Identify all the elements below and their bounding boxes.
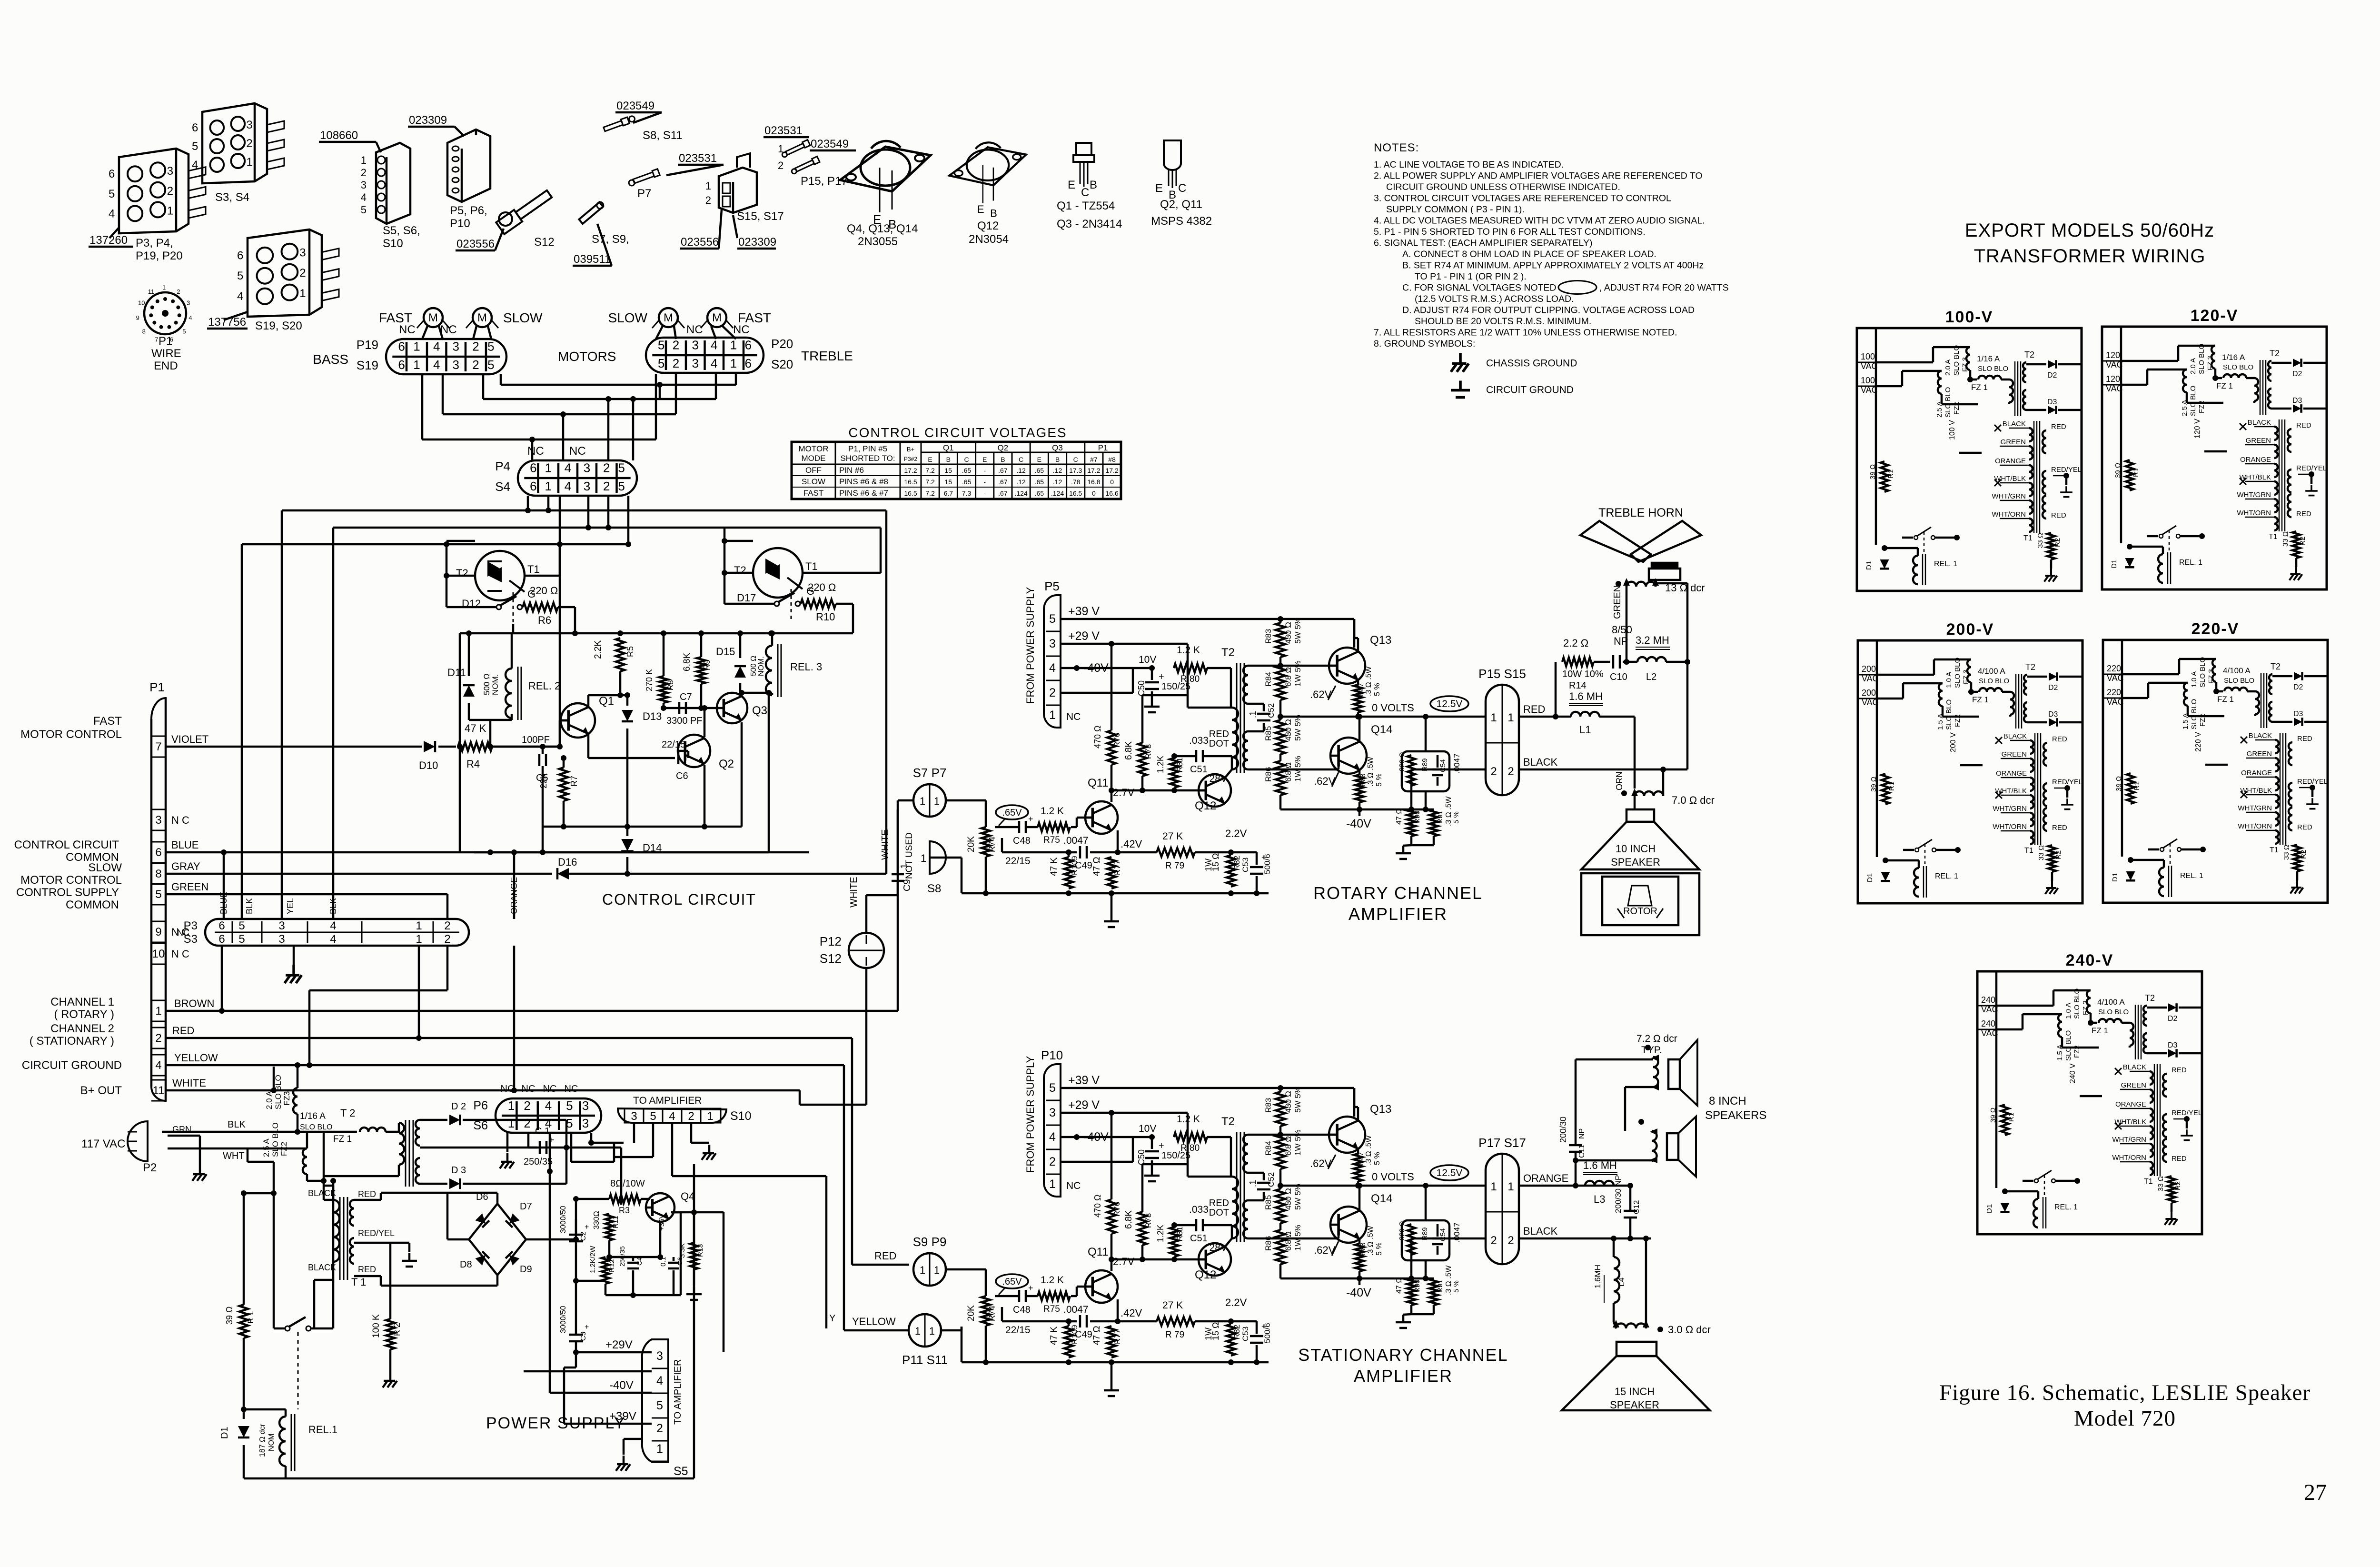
svg-text:R8: R8: [666, 680, 675, 690]
svg-text:1: 1: [656, 1442, 663, 1456]
svg-text:Q1 - TZ554: Q1 - TZ554: [1057, 200, 1115, 212]
svg-text:GREEN: GREEN: [2001, 438, 2026, 446]
svg-text:.12: .12: [1016, 467, 1026, 474]
svg-text:S20: S20: [771, 357, 793, 371]
svg-text:2.0 A: 2.0 A: [1944, 359, 1952, 376]
svg-text:33 Ω: 33 Ω: [2037, 845, 2045, 860]
svg-text:R1: R1: [2007, 1113, 2015, 1122]
svg-text:039511: 039511: [574, 253, 611, 266]
svg-text:NC: NC: [177, 928, 189, 938]
svg-text:+29V: +29V: [605, 1338, 633, 1351]
svg-text:3.2 MH: 3.2 MH: [1636, 634, 1669, 646]
svg-text:39 Ω: 39 Ω: [2114, 463, 2122, 478]
svg-text:6.8 Ω: 6.8 Ω: [1284, 667, 1293, 687]
svg-text:S7, S9,: S7, S9,: [592, 233, 629, 246]
svg-text:ORANGE: ORANGE: [1996, 769, 2027, 778]
svg-text:6.8K: 6.8K: [1124, 1210, 1134, 1229]
svg-text:.67: .67: [998, 489, 1008, 497]
svg-text:RED/YEL: RED/YEL: [2051, 466, 2082, 474]
svg-text:137260: 137260: [89, 234, 128, 247]
svg-text:023531: 023531: [679, 152, 717, 165]
svg-text:Y: Y: [829, 1313, 835, 1324]
svg-text:5 %: 5 %: [1375, 773, 1383, 787]
svg-text:P10: P10: [1041, 1048, 1063, 1062]
svg-text:WHT/ORN: WHT/ORN: [2237, 509, 2271, 517]
svg-text:1W 5%: 1W 5%: [1293, 756, 1302, 782]
svg-text:0 VOLTS: 0 VOLTS: [1372, 702, 1414, 714]
svg-text:500 Ω: 500 Ω: [750, 656, 758, 676]
svg-text:1/16 A: 1/16 A: [2222, 353, 2245, 362]
svg-text:2: 2: [1049, 1155, 1056, 1168]
svg-text:TRANSFORMER WIRING: TRANSFORMER WIRING: [1974, 246, 2206, 267]
svg-text:6.8K: 6.8K: [682, 653, 692, 671]
svg-text:3: 3: [1049, 637, 1056, 650]
svg-text:220 Ω: 220 Ω: [530, 585, 558, 597]
svg-text:6: 6: [218, 933, 225, 946]
svg-text:R1: R1: [1887, 469, 1895, 479]
svg-text:RED: RED: [2172, 1066, 2187, 1074]
svg-text:REL. 1: REL. 1: [2054, 1203, 2078, 1211]
svg-text:PINS #6 & #7: PINS #6 & #7: [839, 489, 888, 498]
svg-text:11: 11: [148, 288, 155, 295]
svg-text:2: 2: [472, 358, 479, 372]
svg-text:D2: D2: [2047, 371, 2057, 379]
svg-text:6: 6: [398, 339, 405, 353]
svg-text:S12: S12: [820, 951, 842, 966]
svg-text:5: 5: [238, 919, 245, 932]
svg-text:NC: NC: [686, 323, 703, 336]
svg-text:15: 15: [945, 478, 952, 486]
svg-text:C: C: [1178, 182, 1186, 195]
svg-text:E: E: [928, 456, 932, 463]
svg-text:023531: 023531: [764, 124, 803, 137]
svg-text:RED: RED: [358, 1265, 376, 1274]
svg-text:WHT/GRN: WHT/GRN: [2238, 804, 2272, 812]
svg-text:NC: NC: [733, 323, 750, 336]
svg-text:P11 S11: P11 S11: [902, 1353, 948, 1367]
svg-text:220: 220: [2107, 664, 2121, 673]
svg-text:C7: C7: [680, 692, 692, 702]
svg-text:SPEAKER: SPEAKER: [1611, 856, 1660, 868]
svg-text:137756: 137756: [208, 316, 246, 329]
svg-text:1: 1: [413, 339, 420, 353]
svg-text:3: 3: [278, 919, 285, 932]
svg-text:( ROTARY ): ( ROTARY ): [54, 1008, 114, 1021]
svg-text:D1: D1: [1865, 561, 1873, 570]
svg-text:M: M: [477, 311, 487, 324]
svg-text:R2: R2: [2174, 1181, 2182, 1190]
svg-text:SPEAKER: SPEAKER: [1610, 1399, 1659, 1411]
svg-text:47 Ω: 47 Ω: [1092, 857, 1102, 876]
svg-text:4/100 A: 4/100 A: [1978, 667, 2005, 676]
svg-text:1: 1: [730, 338, 737, 352]
svg-text:7.0 Ω dcr: 7.0 Ω dcr: [1672, 794, 1715, 806]
svg-text:2.0 A: 2.0 A: [2189, 358, 2197, 374]
svg-text:2: 2: [705, 194, 711, 206]
svg-text:.65: .65: [1035, 489, 1044, 497]
svg-text:D6: D6: [476, 1192, 488, 1202]
svg-text:D2: D2: [2168, 1015, 2178, 1023]
svg-text:SLO BLO: SLO BLO: [2064, 1030, 2073, 1061]
svg-text:1: 1: [1507, 711, 1514, 724]
svg-text:17.2: 17.2: [1087, 467, 1100, 474]
svg-text:BLACK: BLACK: [2123, 1063, 2146, 1071]
svg-text:1.0 A: 1.0 A: [2190, 671, 2198, 688]
svg-text:187 Ω dcr: 187 Ω dcr: [258, 1424, 267, 1457]
svg-text:WHT/ORN: WHT/ORN: [1993, 823, 2027, 831]
svg-text:SLO BLO: SLO BLO: [1944, 387, 1952, 418]
svg-text:WHT/GRN: WHT/GRN: [1993, 805, 2027, 813]
svg-text:REL.1: REL.1: [308, 1424, 337, 1436]
svg-text:RED: RED: [2051, 423, 2066, 431]
svg-text:5W 5%: 5W 5%: [1293, 1184, 1302, 1210]
svg-text:2: 2: [1490, 1234, 1497, 1247]
svg-text:3: 3: [299, 246, 306, 259]
svg-text:SLO BLO: SLO BLO: [271, 1122, 280, 1157]
svg-text:-40V: -40V: [1083, 661, 1109, 675]
svg-text:1W: 1W: [1204, 858, 1213, 871]
svg-text:RED: RED: [2296, 421, 2311, 429]
svg-text:Q3 - 2N3414: Q3 - 2N3414: [1057, 218, 1122, 230]
svg-text:R 79: R 79: [1165, 1330, 1184, 1340]
svg-text:470 Ω: 470 Ω: [1093, 1195, 1102, 1218]
svg-text:2: 2: [1507, 1234, 1514, 1247]
svg-text:SUPPLY COMMON ( P3 - PIN 1).: SUPPLY COMMON ( P3 - PIN 1).: [1386, 204, 1525, 215]
svg-text:REL. 1: REL. 1: [2180, 872, 2203, 880]
svg-text:6: 6: [530, 460, 536, 475]
svg-text:ROTARY CHANNEL: ROTARY CHANNEL: [1313, 883, 1483, 903]
svg-text:D2: D2: [2293, 683, 2303, 691]
svg-text:CHANNEL 2: CHANNEL 2: [50, 1022, 114, 1035]
svg-text:R10: R10: [816, 611, 835, 623]
svg-text:R13: R13: [696, 1244, 704, 1257]
svg-text:B: B: [1001, 456, 1005, 463]
svg-text:.65V: .65V: [1002, 1277, 1022, 1287]
svg-text:WHITE: WHITE: [172, 1077, 206, 1089]
svg-text:FZ 1: FZ 1: [1971, 383, 1988, 392]
svg-text:Q11: Q11: [1088, 777, 1109, 789]
svg-text:47 K: 47 K: [1049, 858, 1059, 876]
svg-text:T1: T1: [527, 563, 540, 575]
svg-text:1: 1: [934, 1264, 940, 1276]
svg-text:R 80: R 80: [1180, 674, 1200, 684]
svg-text:RED: RED: [2051, 511, 2066, 519]
svg-text:A. CONNECT 8 OHM LOAD IN PLACE: A. CONNECT 8 OHM LOAD IN PLACE OF SPEAKE…: [1402, 249, 1656, 260]
svg-text:4: 4: [545, 1116, 552, 1130]
svg-text:T2: T2: [2271, 662, 2281, 671]
svg-text:Q3: Q3: [1052, 443, 1063, 452]
svg-text:2. ALL POWER SUPPLY AND AMPLIF: 2. ALL POWER SUPPLY AND AMPLIFIER VOLTAG…: [1374, 171, 1703, 181]
svg-text:C50: C50: [1137, 680, 1146, 696]
svg-text:1W 5%: 1W 5%: [1293, 1225, 1302, 1251]
svg-text:R86: R86: [1264, 767, 1273, 782]
svg-text:C: C: [1081, 186, 1089, 199]
svg-text:L3: L3: [1594, 1193, 1605, 1205]
svg-text:L2: L2: [1646, 672, 1656, 682]
svg-text:SHOULD BE 20 VOLTS R.M.S. MINI: SHOULD BE 20 VOLTS R.M.S. MINIMUM.: [1415, 316, 1591, 327]
svg-text:D11: D11: [447, 667, 466, 679]
svg-text:SLO BLO: SLO BLO: [2098, 1008, 2129, 1016]
svg-text:1.6MH: 1.6MH: [1593, 1265, 1602, 1288]
svg-text:B+: B+: [907, 446, 914, 453]
svg-text:3300 PF: 3300 PF: [666, 716, 703, 726]
svg-text:WIRE: WIRE: [151, 347, 181, 360]
svg-text:SLO BLO: SLO BLO: [300, 1123, 332, 1131]
svg-text:SLOW: SLOW: [503, 310, 543, 325]
svg-text:22/15: 22/15: [1005, 1325, 1031, 1336]
svg-text:R82: R82: [1232, 856, 1241, 870]
svg-text:023309: 023309: [738, 236, 776, 249]
svg-text:E: E: [1037, 456, 1041, 463]
svg-text:3: 3: [246, 119, 252, 131]
svg-text:820 Ω: 820 Ω: [1398, 1221, 1406, 1240]
svg-text:0.1: 0.1: [659, 1257, 667, 1267]
svg-text:5: 5: [650, 1110, 656, 1123]
svg-text:1: 1: [921, 852, 926, 864]
svg-text:33 Ω: 33 Ω: [2157, 1176, 2165, 1191]
svg-text:3: 3: [278, 933, 285, 946]
svg-text:TREBLE HORN: TREBLE HORN: [1598, 506, 1683, 519]
svg-text:R4: R4: [466, 758, 480, 770]
svg-text:BLACK: BLACK: [308, 1263, 336, 1272]
svg-text:C48: C48: [1013, 836, 1031, 846]
svg-text:T1: T1: [2023, 534, 2033, 542]
svg-text:1: 1: [246, 156, 252, 169]
svg-text:D2: D2: [2048, 684, 2058, 692]
svg-text:2: 2: [299, 267, 306, 279]
svg-text:33 Ω: 33 Ω: [2281, 531, 2290, 547]
svg-text:FZ 1: FZ 1: [1972, 695, 1989, 704]
svg-text:T1: T1: [805, 560, 818, 572]
svg-text:CIRCUIT GROUND UNLESS OTHERWIS: CIRCUIT GROUND UNLESS OTHERWISE INDICATE…: [1386, 182, 1620, 192]
svg-text:28V: 28V: [1210, 1242, 1227, 1253]
svg-text:P17 S17: P17 S17: [1478, 1136, 1526, 1150]
svg-text:R75: R75: [1043, 1304, 1060, 1314]
svg-text:ORANGE: ORANGE: [2240, 456, 2271, 464]
svg-text:1: 1: [705, 180, 711, 192]
svg-text:1/16 A: 1/16 A: [1977, 354, 2000, 363]
svg-text:4: 4: [565, 479, 571, 493]
svg-text:R88: R88: [1359, 773, 1367, 787]
svg-text:FROM POWER SUPPLY: FROM POWER SUPPLY: [1024, 587, 1036, 704]
svg-text:P5, P6,: P5, P6,: [450, 204, 487, 217]
svg-text:BLACK: BLACK: [1523, 756, 1557, 768]
svg-text:NP: NP: [1578, 1128, 1586, 1139]
svg-text:5: 5: [361, 204, 367, 216]
svg-text:R78: R78: [1144, 744, 1153, 759]
svg-text:2.2V: 2.2V: [1225, 828, 1247, 839]
svg-text:5: 5: [658, 356, 664, 370]
svg-text:6.8 Ω: 6.8 Ω: [1284, 1231, 1293, 1251]
svg-text:NC: NC: [565, 1084, 578, 1094]
svg-text:R84: R84: [1264, 672, 1273, 687]
svg-text:T1: T1: [2144, 1178, 2153, 1186]
svg-text:GREEN: GREEN: [2247, 750, 2272, 758]
svg-text:S19: S19: [357, 358, 378, 372]
svg-text:.1: .1: [1248, 711, 1258, 718]
svg-text:REL. 1: REL. 1: [1935, 872, 1958, 880]
svg-text:1: 1: [413, 358, 420, 372]
svg-text:NC: NC: [1066, 1180, 1081, 1191]
svg-text:12.5V: 12.5V: [1437, 699, 1463, 709]
svg-text:2: 2: [155, 1032, 161, 1045]
svg-text:3: 3: [361, 179, 367, 191]
svg-text:.78: .78: [1071, 478, 1081, 486]
svg-text:S7 P7: S7 P7: [913, 766, 947, 780]
svg-text:D8: D8: [460, 1259, 472, 1270]
svg-text:NOM: NOM: [268, 1434, 276, 1451]
svg-text:SLO BLO: SLO BLO: [2189, 386, 2197, 416]
svg-text:D7: D7: [520, 1201, 532, 1212]
svg-text:C48: C48: [1013, 1305, 1031, 1315]
svg-text:.3 Ω .5W: .3 Ω .5W: [1445, 796, 1453, 826]
svg-text:5 %: 5 %: [1373, 683, 1381, 696]
svg-text:P3#2: P3#2: [904, 456, 917, 462]
svg-text:2: 2: [778, 160, 783, 171]
svg-text:D1: D1: [1866, 873, 1874, 882]
svg-text:NC: NC: [440, 323, 457, 336]
svg-text:GREEN: GREEN: [171, 881, 208, 893]
svg-text:7.2: 7.2: [925, 489, 935, 497]
svg-text:108660: 108660: [320, 129, 358, 142]
svg-text:0: 0: [1092, 489, 1096, 497]
svg-text:.3 Ω .5W: .3 Ω .5W: [1365, 666, 1373, 696]
svg-text:P20: P20: [771, 337, 793, 351]
svg-text:P3, P4,: P3, P4,: [136, 237, 173, 250]
svg-text:C49: C49: [1075, 860, 1092, 871]
svg-text:YELLOW: YELLOW: [852, 1316, 896, 1327]
svg-text:T1: T1: [2024, 847, 2033, 855]
svg-text:5: 5: [487, 339, 494, 353]
svg-text:7.2 Ω dcr: 7.2 Ω dcr: [1636, 1033, 1677, 1044]
svg-text:C52: C52: [1267, 703, 1276, 718]
svg-text:.3 Ω .5W: .3 Ω .5W: [1445, 1265, 1453, 1295]
svg-text:GREEN: GREEN: [2002, 750, 2027, 759]
svg-text:RED: RED: [1209, 1198, 1229, 1208]
svg-text:2: 2: [673, 356, 679, 370]
svg-text:D16: D16: [558, 856, 577, 868]
svg-text:27: 27: [2304, 1480, 2327, 1505]
svg-text:4: 4: [711, 338, 717, 352]
svg-text:P2: P2: [143, 1161, 157, 1174]
svg-text:2.2K: 2.2K: [593, 640, 603, 659]
svg-text:4: 4: [155, 1059, 161, 1072]
svg-text:Figure 16. Schematic, LESLI: Figure 16. Schematic, LESLIE Speaker: [1939, 1380, 2311, 1405]
svg-text:5: 5: [487, 358, 494, 372]
svg-text:RED/YEL: RED/YEL: [2052, 778, 2082, 786]
svg-text:BLK: BLK: [228, 1119, 246, 1130]
svg-text:+: +: [1159, 672, 1164, 682]
svg-text:4: 4: [109, 207, 115, 220]
svg-text:200: 200: [1862, 688, 1876, 698]
svg-text:117 VAC: 117 VAC: [81, 1138, 126, 1150]
svg-text:+: +: [585, 1323, 589, 1331]
svg-text:C6: C6: [676, 771, 688, 781]
svg-text:.3 Ω .5W: .3 Ω .5W: [1367, 756, 1375, 787]
svg-text:5: 5: [182, 328, 186, 335]
svg-text:NC: NC: [569, 445, 586, 458]
svg-text:5W 5%: 5W 5%: [1293, 715, 1302, 741]
svg-text:.1: .1: [1248, 1180, 1258, 1187]
svg-text:P1: P1: [149, 680, 165, 694]
svg-text:7: 7: [155, 336, 158, 343]
svg-text:023556: 023556: [456, 238, 495, 250]
svg-text:5: 5: [155, 888, 161, 901]
svg-text:12.5V: 12.5V: [1437, 1168, 1463, 1178]
svg-text:SHORTED TO:: SHORTED TO:: [840, 454, 895, 463]
svg-text:4: 4: [565, 460, 571, 475]
svg-text:16.5: 16.5: [1069, 489, 1082, 497]
svg-text:M: M: [428, 311, 438, 324]
svg-text:CONTROL CIRCUIT VOLTAGES: CONTROL CIRCUIT VOLTAGES: [848, 425, 1067, 440]
svg-text:R12: R12: [608, 1259, 616, 1272]
svg-text:R91: R91: [1436, 810, 1444, 824]
svg-text:S5, S6,: S5, S6,: [383, 224, 420, 237]
svg-text:1: 1: [1049, 1178, 1056, 1191]
svg-text:22K: 22K: [539, 773, 548, 788]
svg-text:R74: R74: [987, 837, 997, 852]
svg-text:DOT: DOT: [1209, 1208, 1229, 1218]
svg-text:R82: R82: [1232, 1325, 1241, 1339]
svg-text:C. FOR SIGNAL VOLTAGES NOTED: C. FOR SIGNAL VOLTAGES NOTED: [1402, 283, 1557, 293]
svg-text:R2: R2: [2054, 850, 2063, 859]
svg-text:D3: D3: [2293, 710, 2303, 718]
svg-text:CONTROL CIRCUIT: CONTROL CIRCUIT: [602, 891, 756, 908]
svg-text:T2: T2: [2270, 349, 2280, 358]
svg-text:7.2: 7.2: [925, 478, 935, 486]
svg-text:RED: RED: [2052, 735, 2067, 743]
svg-text:7.2: 7.2: [925, 467, 935, 474]
svg-text:POWER SUPPLY: POWER SUPPLY: [486, 1414, 626, 1432]
svg-text:D3: D3: [2047, 398, 2057, 406]
svg-text:D 3: D 3: [451, 1165, 466, 1176]
svg-text:R88: R88: [1359, 1242, 1367, 1256]
svg-text:Q13: Q13: [1370, 634, 1391, 647]
svg-text:100-V: 100-V: [1945, 308, 1993, 326]
svg-text:17.3: 17.3: [1069, 467, 1082, 474]
svg-text:1: 1: [929, 1325, 935, 1337]
svg-text:1.6 MH: 1.6 MH: [1569, 690, 1603, 702]
svg-text:SLO BLO: SLO BLO: [2223, 363, 2253, 371]
svg-text:1.0 A: 1.0 A: [1945, 672, 1953, 688]
svg-text:Q2: Q2: [719, 758, 734, 770]
svg-text:D. ADJUST R74 FOR OUTPUT CLIPP: D. ADJUST R74 FOR OUTPUT CLIPPING. VOLTA…: [1402, 305, 1695, 316]
svg-text:R91: R91: [1436, 1279, 1444, 1293]
svg-text:200-V: 200-V: [1946, 620, 1994, 639]
svg-text:.0047: .0047: [1063, 835, 1089, 846]
svg-text:BLACK: BLACK: [1523, 1225, 1557, 1237]
svg-text:T 2: T 2: [340, 1107, 355, 1119]
svg-text:3: 3: [692, 338, 699, 352]
svg-text:R3: R3: [619, 1206, 630, 1215]
svg-text:023556: 023556: [681, 236, 719, 249]
svg-text:430 Ω: 430 Ω: [1284, 1091, 1293, 1113]
svg-text:270 K: 270 K: [645, 669, 654, 691]
svg-text:4. ALL DC VOLTAGES MEASURED WI: 4. ALL DC VOLTAGES MEASURED WITH DC VTVM…: [1374, 216, 1705, 226]
svg-text:16.6: 16.6: [1105, 489, 1118, 497]
svg-text:R5: R5: [625, 646, 635, 657]
svg-text:5W 5%: 5W 5%: [1293, 1087, 1302, 1113]
svg-text:REL. 3: REL. 3: [790, 661, 822, 673]
svg-text:3: 3: [167, 165, 173, 178]
svg-text:.0047: .0047: [1452, 753, 1461, 774]
svg-text:-40V: -40V: [1083, 1130, 1109, 1144]
svg-text:1.2K: 1.2K: [1156, 756, 1165, 773]
svg-text:RED/YEL: RED/YEL: [2297, 778, 2328, 786]
svg-text:SLO BLO: SLO BLO: [1953, 345, 1961, 376]
svg-text:.12: .12: [1016, 478, 1026, 486]
svg-text:R11: R11: [612, 1216, 620, 1228]
